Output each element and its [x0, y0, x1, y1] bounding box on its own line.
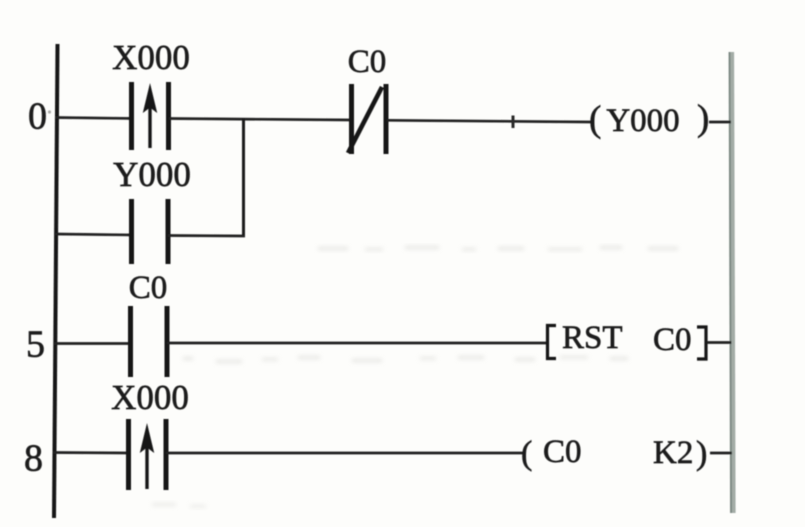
wire coil C0 to right rail	[710, 452, 732, 455]
RST instruction left bracket	[548, 326, 557, 359]
contact C0, rung 5	[128, 306, 133, 377]
speck beside rung number 0	[48, 110, 51, 113]
rising edge arrow	[145, 445, 148, 489]
svg-text:K2: K2	[653, 435, 693, 471]
svg-text:X000: X000	[111, 378, 189, 417]
branch junction vertical wire	[242, 118, 245, 236]
NC slash	[348, 87, 382, 153]
rising edge arrow	[148, 105, 151, 148]
wire rung0 between X000 and C0	[169, 119, 353, 121]
left power rail	[54, 44, 58, 518]
svg-text:Y000: Y000	[113, 155, 191, 194]
svg-text:(: (	[589, 99, 601, 140]
wire coil Y000 to right rail	[709, 121, 731, 124]
scan smudge dashes below branch	[318, 246, 678, 251]
contact X000 rising edge, rung 0	[129, 82, 134, 150]
contact C0 normally-closed, rung 0	[349, 84, 354, 154]
contact X000 rising edge, rung 8	[126, 419, 131, 490]
svg-text:(: (	[521, 435, 532, 472]
svg-text:): )	[696, 435, 707, 472]
svg-text:5: 5	[26, 324, 45, 366]
faint marks bottom left	[152, 503, 206, 508]
wire rung0 from C0 to coil	[387, 120, 591, 122]
wire rung5 from left rail to C0	[54, 342, 132, 345]
RST instruction right bracket	[697, 327, 706, 359]
svg-text:0: 0	[28, 96, 47, 138]
svg-text:C0: C0	[543, 434, 582, 470]
svg-text:8: 8	[24, 438, 43, 480]
wire rung0 from left rail to X000	[55, 118, 133, 119]
wire branch from left rail to Y000	[55, 234, 133, 235]
wire rung5 from C0 to RST	[167, 342, 547, 345]
wire RST to right rail	[707, 341, 732, 344]
wire rung8 from left rail to X000	[53, 451, 130, 454]
svg-text:Y000: Y000	[606, 103, 679, 139]
svg-text:C0: C0	[348, 44, 387, 80]
right power rail	[732, 52, 734, 513]
svg-text:RST: RST	[562, 320, 623, 356]
svg-text:C0: C0	[653, 322, 692, 358]
wire branch from Y000 to junction	[168, 234, 245, 237]
contact Y000, parallel branch	[129, 199, 134, 264]
svg-text:C0: C0	[129, 270, 168, 306]
wire rung8 from X000 to coil	[166, 452, 523, 455]
svg-text:X000: X000	[112, 38, 190, 77]
svg-text:): )	[697, 98, 709, 139]
scan smudge dashes below rung 5	[183, 356, 628, 363]
junction tick on wire	[512, 116, 515, 129]
